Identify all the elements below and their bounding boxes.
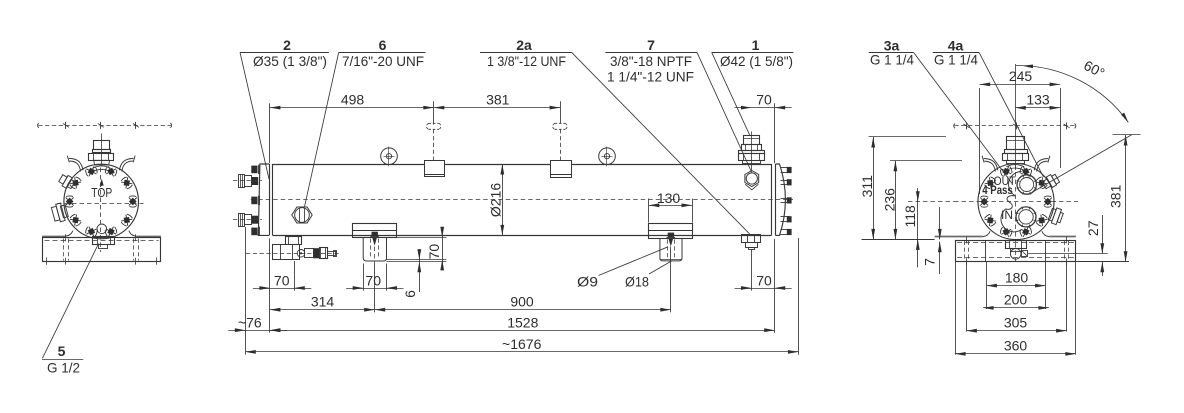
drain boss bottom (left view) [97,224,107,234]
svg-text:360: 360 [1004,338,1028,354]
60 degree reference line [1033,135,1132,192]
side port right (pos 3a projection) [1048,206,1065,225]
saddle strap, left view [42,236,66,238]
dim 70 bottom right [735,288,792,290]
phantom line (tube bundle) left view [38,125,171,127]
svg-text:118: 118 [902,205,918,228]
dim 70 foot width [363,264,365,291]
flange bolts right view [1019,166,1032,177]
svg-text:70: 70 [756,91,772,107]
angled port 60deg (pos 4a) [1041,173,1060,191]
dim 70 top right [735,107,792,109]
svg-text:IN: IN [1001,210,1013,222]
saddle 2 [649,224,693,239]
hex plug 3/8 NPTF (pos 7) [745,171,759,187]
leader 6 [305,52,339,206]
dim 27 [1102,215,1104,254]
svg-text:TOP: TOP [91,185,112,200]
base corner ticks left view [46,258,48,265]
right cap bolts [781,167,790,169]
svg-text:1: 1 [752,37,760,53]
svg-text:27: 27 [1085,220,1101,236]
svg-text:Ø18: Ø18 [625,274,649,290]
svg-text:70: 70 [756,272,772,288]
top dimension row: extension lines [269,103,271,163]
right tube sheet [771,164,773,235]
relief fitting top, right view [1015,64,1017,170]
svg-text:381: 381 [1108,184,1124,208]
dim ~1676 [245,351,798,353]
shell body [273,164,772,166]
phantom hole boss 2 [553,123,568,129]
base right view [956,241,1076,262]
svg-text:236: 236 [882,188,898,212]
60 degree arc dimension [1016,65,1128,122]
left dim column: reference extensions [869,136,946,138]
dim ~76 [228,330,287,332]
saddle strap right view [935,236,983,238]
bottom dims right view: extensions [986,262,988,309]
dim 200 [983,307,1049,309]
dim 118 [917,188,919,267]
angled side plug upper-left (left view) [58,173,76,190]
lifting lug hooks, left view [70,161,81,171]
dim 360 [955,353,1076,355]
svg-text:245: 245 [1009,68,1033,84]
dims 245/133 extension lines [979,88,981,194]
svg-text:Ø42 (1 5/8"): Ø42 (1 5/8") [720,53,793,69]
svg-text:130: 130 [657,190,681,206]
svg-text:~76: ~76 [238,314,262,330]
leader 5 [42,244,98,359]
dim 1528 [270,330,775,332]
hex plug 7/16-20 UNF (pos 6) [292,207,312,223]
dim 305 [966,330,1066,332]
svg-text:70: 70 [426,244,442,260]
svg-text:7: 7 [647,37,655,53]
IN port [1016,207,1036,227]
svg-text:381: 381 [486,91,510,107]
svg-text:305: 305 [1004,315,1028,331]
svg-text:200: 200 [1004,292,1028,308]
vertical centerline right view circle [1015,165,1017,243]
svg-text:70: 70 [365,272,381,288]
svg-text:498: 498 [341,91,365,107]
dim 180 [986,285,1045,287]
leader 3a [914,53,1013,184]
leader 2a [572,52,750,233]
lifting lug 2 [599,148,616,165]
dim 70 bottom left [253,288,311,290]
svg-text:2a: 2a [516,37,532,53]
vertical dim 70 (shell to foot) [442,228,444,270]
svg-text:133: 133 [1026,92,1050,108]
svg-text:6: 6 [379,37,387,53]
dim 900 [375,309,671,311]
saddle 1 [353,224,397,238]
pass partition curve [1001,172,1022,232]
left bonnet/end cap [258,164,269,235]
svg-text:6: 6 [402,290,418,298]
base anchor bolt holes left view [63,239,65,261]
svg-text:4 Pass: 4 Pass [982,185,1013,197]
vertical dim 6 (foot plate) [419,249,421,292]
vent fitting G1/2 on top, left view [101,134,103,167]
base left view [43,238,161,262]
svg-text:3/8"-18 NPTF: 3/8"-18 NPTF [610,53,692,69]
top mounting boss 2 [551,161,572,178]
base anchor bolts right view [964,241,966,261]
flange bolts, left view [104,166,117,177]
bottom drain boss right view [1015,243,1017,262]
drain valve assembly bottom left [246,253,339,255]
TOP direction arrow [101,181,103,186]
OUT port [1017,175,1036,194]
phantom hole boss 1 [426,123,441,129]
svg-text:Ø9: Ø9 [577,274,598,290]
leader 2 [240,52,269,179]
dim 130 [648,199,650,223]
dim 133 [1015,107,1060,109]
leader 7 [697,52,752,172]
svg-text:G 1 1/4: G 1 1/4 [934,51,978,67]
shell centerline [251,199,793,201]
svg-text:900: 900 [510,293,534,309]
svg-text:1528: 1528 [507,314,538,330]
dim 245 [980,84,1061,86]
svg-text:7: 7 [922,258,938,266]
relief valve connection Oe42 (pos 1) [751,132,753,171]
svg-text:Ø35 (1 3/8"): Ø35 (1 3/8") [253,53,327,69]
left tube sheet [269,164,271,235]
dim 236 [895,161,897,240]
svg-text:314: 314 [311,293,335,309]
leader 4a [979,53,1043,177]
end flange circle, right view [978,164,1054,240]
svg-text:Ø216: Ø216 [488,183,504,217]
foot base extension lines [387,259,447,261]
lifting lug 1 [381,148,398,165]
svg-text:180: 180 [1005,269,1029,285]
svg-text:7/16"-20 UNF: 7/16"-20 UNF [342,53,424,69]
dim 381 [1125,135,1127,262]
dim Oe216 [502,164,504,235]
dim 7 [939,207,941,239]
svg-text:70: 70 [274,272,290,288]
svg-text:1 1/4"-12 UNF: 1 1/4"-12 UNF [607,69,694,85]
lifting hooks right view [984,161,995,171]
foot bracket 1 [363,238,386,261]
svg-text:G 1 1/4: G 1 1/4 [870,51,914,67]
top mounting boss 1 [425,161,445,177]
dim 381 [434,107,560,109]
svg-text:G 1/2: G 1/2 [47,360,80,376]
drain connection bottom right (pos 2a) [742,235,761,243]
dim 314 [270,309,375,311]
svg-text:~1676: ~1676 [502,336,542,352]
svg-text:311: 311 [859,175,875,198]
dim 498 [270,107,434,109]
left cap bolts [251,166,257,174]
left cap ports (pos 2) [239,175,245,188]
leader 1 [712,52,750,135]
side fitting lower-left (left view) [51,202,69,223]
foot bracket 2 [660,239,682,261]
right dim column [1028,253,1108,255]
bottom dims: extension lines [245,227,247,355]
foot bolt 2 [668,233,674,238]
right end cap (dished) [776,164,786,235]
svg-text:5: 5 [58,343,66,359]
foot bolt 1 [372,232,378,237]
phantom line right view [955,125,1076,127]
base inner saddle edges [985,240,987,262]
centerlines left view [57,203,144,205]
svg-text:1 3/8"-12 UNF: 1 3/8"-12 UNF [487,53,566,69]
dim 311 [873,137,875,239]
end flange circle, left view [64,164,139,239]
svg-text:2: 2 [283,37,291,53]
